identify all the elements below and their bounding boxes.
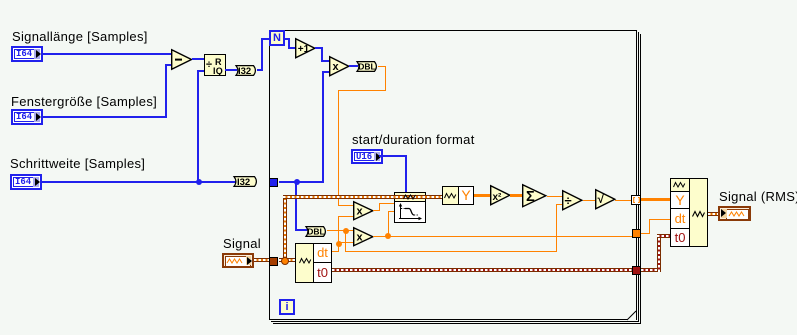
svg-text:I32: I32 bbox=[238, 66, 251, 77]
for loop frame stack 3 bbox=[640, 34, 641, 324]
blue tunnel Schrittweite bbox=[269, 178, 278, 187]
wire divide to sqrt bbox=[583, 200, 595, 201]
svg-text:x: x bbox=[333, 61, 340, 73]
wire t0 long bbox=[332, 268, 632, 272]
svg-text:I32: I32 bbox=[237, 177, 250, 188]
wire tunnel to build Y thick bbox=[641, 198, 670, 201]
wire dt out up to x2 lower input bbox=[332, 251, 339, 252]
brown tunnel Signal bbox=[269, 257, 278, 266]
svg-text:÷: ÷ bbox=[565, 193, 572, 208]
quotient &amp; remainder node bbox=[204, 54, 226, 76]
wire quotient IQ out bbox=[225, 69, 237, 71]
wire x1 to DBL bbox=[349, 65, 358, 67]
subset header squiggle bbox=[403, 194, 417, 200]
svg-text:x: x bbox=[357, 206, 364, 218]
svg-text:DBL: DBL bbox=[358, 62, 375, 72]
junction inside bbox=[294, 179, 300, 185]
node junction Schrittweite bbox=[196, 179, 202, 185]
for loop frame stack 2 bbox=[638, 32, 639, 322]
wire subtract out bbox=[192, 58, 205, 60]
sqrt node bbox=[595, 189, 616, 210]
loop corner resize notch bbox=[627, 311, 637, 321]
conversion node I32 #2 bbox=[230, 176, 259, 187]
svg-text:x: x bbox=[357, 232, 364, 244]
wire x^2 to sum thick bbox=[510, 194, 522, 197]
svg-text:DBL: DBL bbox=[307, 227, 324, 237]
svg-text:Σ: Σ bbox=[526, 189, 535, 205]
wire dt branch to x3 lower input bbox=[338, 242, 354, 243]
label Signallänge bbox=[12, 30, 148, 43]
junction dot B bbox=[336, 241, 342, 247]
wire Schrittweite inside loop bbox=[279, 181, 324, 183]
divide node bbox=[562, 190, 583, 211]
junction dot C bbox=[385, 233, 391, 239]
build waveform node bbox=[670, 178, 708, 247]
control I64 Signallänge bbox=[11, 46, 43, 62]
control I64 Fenstergröße bbox=[11, 109, 43, 125]
get waveform subset node bbox=[394, 192, 426, 202]
wire +1 to multiply bbox=[315, 47, 323, 49]
control Signal waveform bbox=[222, 253, 254, 268]
label Signal bbox=[223, 237, 261, 250]
control I64 Schrittweite bbox=[10, 174, 42, 190]
wire Signal top branch over subset to getY bbox=[283, 195, 443, 199]
wire N to +1 bbox=[285, 38, 290, 40]
svg-text:√: √ bbox=[598, 192, 605, 206]
label Schrittweite bbox=[10, 157, 145, 170]
square node x^2 bbox=[490, 185, 511, 206]
wire drop to DBL2 bbox=[295, 182, 297, 231]
wire Signal to tunnel bbox=[254, 258, 270, 262]
subtract node bbox=[171, 49, 193, 71]
wire orange tunnel to build dt bbox=[641, 233, 650, 234]
wire DBL2 out to x3 upper bbox=[327, 230, 354, 231]
orange tunnel dt bbox=[632, 229, 641, 238]
label start/duration format bbox=[352, 133, 475, 146]
junction on signal wire bbox=[281, 257, 289, 265]
wire dot A down right up to divide bbox=[345, 230, 346, 252]
for loop main frame bbox=[269, 30, 637, 320]
conversion node DBL #2 bbox=[302, 226, 328, 237]
wire t0 outside bbox=[641, 268, 660, 272]
wire dot C up to subset duration bbox=[388, 211, 389, 236]
wire Signal up branch bbox=[283, 195, 287, 261]
indexing tunnel bbox=[631, 195, 641, 205]
get waveform components node (dt,t0) bbox=[295, 243, 332, 283]
control U16 start/duration format bbox=[351, 149, 383, 164]
multiply node x2 bbox=[353, 201, 374, 221]
multiply node x1 bbox=[329, 56, 350, 77]
wire Schrittweite line bbox=[42, 181, 236, 183]
junction dot A bbox=[343, 228, 349, 234]
sum node bbox=[522, 184, 547, 208]
wire build out bbox=[708, 212, 718, 216]
wire Signal inside to components bbox=[279, 258, 296, 262]
label Signal (RMS) bbox=[719, 190, 797, 203]
red tunnel t0 bbox=[632, 266, 641, 275]
svg-text:x²: x² bbox=[493, 192, 503, 203]
wire sum to divide bbox=[547, 196, 562, 197]
indicator Signal (RMS) bbox=[718, 206, 751, 221]
wire x3 out long to tunnel bbox=[373, 236, 632, 237]
wire Schrittweite riser to multiply bbox=[322, 71, 324, 182]
wire getY out thick bbox=[474, 194, 490, 197]
wire Fenstergröße to subtract bbox=[43, 116, 166, 118]
increment node +1 bbox=[295, 38, 316, 59]
wire sqrt to index tunnel bbox=[615, 200, 631, 201]
svg-text:+1: +1 bbox=[298, 44, 310, 55]
multiply node x3 bbox=[353, 227, 374, 247]
N terminal bbox=[269, 30, 285, 46]
wire Signallänge to subtract bbox=[43, 53, 172, 55]
label Fenstergröße bbox=[11, 95, 157, 108]
wire DBL down-left-down to x2 bbox=[378, 66, 386, 67]
i terminal bbox=[279, 299, 295, 315]
conversion node I32 #1 bbox=[232, 65, 258, 76]
wire U16 to subset bbox=[379, 155, 406, 157]
wire I32 to N bbox=[257, 69, 262, 71]
wire x2 out to subset start bbox=[373, 210, 380, 211]
get waveform components Y node bbox=[442, 186, 459, 205]
wire Schrittweite riser to quotient bbox=[197, 70, 199, 182]
conversion node DBL #1 bbox=[353, 61, 379, 72]
